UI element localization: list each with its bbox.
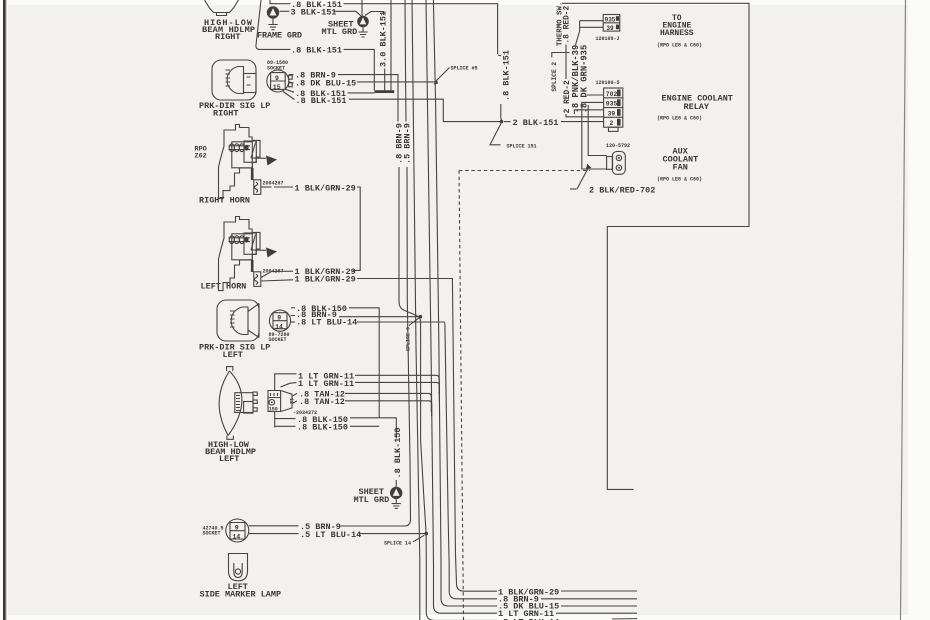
svg-text:9: 9: [275, 75, 279, 82]
svg-text:LEFT: LEFT: [223, 350, 243, 360]
wire 2 BLK/RED-702 pointer: [577, 167, 589, 190]
svg-text:LEFT: LEFT: [219, 454, 239, 464]
sheet metal ground symbol (bottom): [390, 487, 402, 499]
wire .5 BRN-9 (side marker): [249, 525, 299, 527]
trunk wire .5 BRN-9 resumed down to side marker: [339, 167, 411, 526]
svg-text:(RPO LE8 & C60): (RPO LE8 & C60): [657, 116, 702, 122]
svg-text:15: 15: [273, 84, 281, 91]
wire .8 TAN-12 (headlamp left, first): [292, 393, 297, 396]
svg-text:2 BLK-151: 2 BLK-151: [513, 118, 559, 128]
svg-text:1 BLK/GRN-29: 1 BLK/GRN-29: [295, 183, 356, 193]
svg-text:39: 39: [608, 110, 616, 117]
svg-text:.8 DK GRN-935: .8 DK GRN-935: [579, 45, 589, 114]
connector 2034372 (headlamp left, 3-cavity): [268, 391, 281, 412]
svg-text:FAN: FAN: [673, 163, 688, 173]
splice 2 bracket and cross: [552, 53, 563, 58]
svg-text:702: 702: [606, 91, 618, 98]
svg-text:LEFT HORN: LEFT HORN: [201, 282, 247, 292]
svg-text:SOCKET: SOCKET: [269, 337, 287, 343]
scan edge line right: [901, 0, 906, 620]
svg-text:120-5792: 120-5792: [606, 143, 630, 149]
svg-text:.5 BRN-9: .5 BRN-9: [403, 123, 413, 164]
svg-text:1 BLK/GRN-29: 1 BLK/GRN-29: [295, 275, 356, 285]
svg-text:RIGHT: RIGHT: [213, 109, 239, 119]
headlamp left connector body: [235, 393, 253, 413]
svg-text:120109-J: 120109-J: [596, 36, 620, 42]
wire .8 BLK-150 (prk-dir left, first): [291, 307, 295, 309]
svg-text:RELAY: RELAY: [684, 102, 710, 112]
svg-text:39: 39: [606, 25, 614, 32]
svg-text:.8 BLK-151: .8 BLK-151: [296, 96, 347, 106]
svg-text:SPLICE #5: SPLICE #5: [451, 66, 478, 72]
trunk wire (from top edge down to bottom edge): [412, 0, 420, 620]
svg-text:HARNESS: HARNESS: [660, 29, 694, 38]
svg-text:14: 14: [233, 533, 241, 540]
wire .8 TAN-12 (headlamp left, second): [292, 401, 297, 404]
wire 1 BLK/GRN-29 (right horn): [261, 186, 272, 188]
splice 5 pointer and label: [437, 68, 450, 81]
trunk wire (from top edge, splice 5, to bundle .5 DK BLU-15): [433, 0, 497, 606]
svg-text:MTL GRD: MTL GRD: [354, 495, 390, 505]
wire 2 BLK-151 (to engine coolant relay): [504, 121, 511, 123]
svg-text:SPLICE 9: SPLICE 9: [406, 327, 412, 351]
trunk wire LT BLU-14 (from prk-dir left, to bundle .8 BRN-9): [357, 322, 497, 599]
svg-text:FRAME GRD: FRAME GRD: [257, 31, 302, 41]
svg-text:RIGHT: RIGHT: [215, 32, 241, 42]
splice 14 dot: [424, 532, 428, 536]
wire 1 LT GRN-11 (headlamp left, first): [275, 374, 297, 391]
svg-text:(RPO LE8 & C60): (RPO LE8 & C60): [657, 43, 702, 49]
trunk wire: BRN-9 resumed, splice 9 path, splice 14 path, 5th bundle line: [399, 167, 497, 620]
lamp LEFT SIDE MARKER: [229, 554, 248, 581]
svg-text:.8 BLK-151: .8 BLK-151: [291, 46, 342, 56]
svg-text:2: 2: [610, 120, 614, 127]
svg-text:1 BLK/GRN-29: 1 BLK/GRN-29: [498, 587, 559, 597]
svg-text:SPLICE 14: SPLICE 14: [384, 541, 411, 547]
wire .5 LT BLU-14 (side marker to splice 14): [249, 533, 299, 535]
svg-text:935: 935: [606, 101, 618, 108]
wire .8 BLK-151 (top, right hdlmp to splice box): [270, 0, 291, 4]
svg-text:2 BLK/RED-702: 2 BLK/RED-702: [589, 185, 655, 195]
svg-text:14: 14: [275, 323, 283, 330]
svg-text:.8 BLK-151: .8 BLK-151: [501, 50, 511, 101]
svg-text:935: 935: [605, 16, 616, 23]
wire .8 BLK-151 (second, to ground bar): [256, 0, 291, 49]
svg-text:.8 DK BLU-15: .8 DK BLU-15: [295, 79, 356, 89]
wire 2 RED-2 segments: [565, 45, 567, 80]
svg-text:(RPO LE8 & C60): (RPO LE8 & C60): [657, 177, 702, 183]
sheet metal ground symbol (top): [357, 16, 369, 28]
svg-text:.8 LT BLU-14: .8 LT BLU-14: [296, 318, 357, 328]
wires relay to aux fan: [582, 114, 607, 169]
wire .8 BLK-151 (fourth, prk-dir right ground to splice 151): [283, 92, 295, 100]
svg-text:2004267: 2004267: [263, 181, 284, 187]
wire .8 BLK-151 (third, prk-dir right ground): [285, 89, 295, 92]
headlamp HIGH-LOW BEAM HDLMP RIGHT (cut off at top): [205, 0, 239, 13]
wire .8 DK BLU-15 (prk-dir right, to splice 5): [289, 82, 294, 83]
svg-text:9: 9: [235, 525, 239, 532]
splice 5 arrowhead on trunk: [434, 79, 439, 84]
wire 3 BLK-151 (frame grd to sheet mtl grd): [280, 10, 290, 12]
wire 1 BLK/GRN-29 (left horn upper): [261, 271, 293, 277]
svg-text:.8 RED-2: .8 RED-2: [563, 5, 572, 43]
svg-text:SOCKET: SOCKET: [203, 531, 221, 537]
svg-text:.5 LT BLU-14: .5 LT BLU-14: [300, 530, 361, 540]
wire .8 BRN-9 (prk-dir left, to splice 9): [291, 315, 295, 317]
headlamp HIGH-LOW BEAM HDLMP LEFT lens: [219, 371, 242, 436]
wire .8 BLK-150 (headlamp left ground, first): [274, 412, 276, 428]
wire 1 BLK/GRN-29 (left horn lower): [261, 280, 293, 281]
dashed harness boundary: [459, 170, 590, 172]
trunk wire (from top edge, to bundle 1 LT GRN-11): [426, 0, 497, 613]
lamp PRK-DIR SIG LP RIGHT: [212, 60, 256, 100]
connector 120109-J (to engine harness): [603, 15, 620, 32]
svg-text:MTL GRD: MTL GRD: [322, 27, 358, 37]
svg-text:1 LT GRN-11: 1 LT GRN-11: [298, 379, 354, 389]
frame ground symbol: [267, 6, 279, 18]
trunk wire from top: dk blu feed to terminal circle: [405, 0, 406, 122]
connector socket 89-7280 (prk-dir left): [269, 310, 290, 331]
wire from top edge into terminal bar: [390, 0, 392, 90]
svg-text:RIGHT HORN: RIGHT HORN: [199, 195, 250, 205]
svg-text:SPLICE 2: SPLICE 2: [551, 62, 558, 92]
wire .8 BLK-150 (headlamp left ground, second): [275, 425, 296, 427]
wire stub into sheet mtl grd from top edge: [361, 0, 363, 16]
svg-text:3.0 BLK-151: 3.0 BLK-151: [379, 11, 389, 67]
horn RIGHT (bracket, body, coil, lever, arrow, stem): [219, 125, 278, 199]
svg-text:.8 BLK-150: .8 BLK-150: [297, 423, 348, 433]
svg-text:Z62: Z62: [195, 153, 207, 161]
engine compartment box outline: [562, 3, 749, 489]
splice 151 pointer and label: [490, 124, 501, 145]
wire .8 LT BLU-14 (prk-dir left): [291, 321, 295, 323]
splice 9 dot: [419, 315, 423, 319]
ground terminal bar: [374, 90, 394, 93]
svg-text:3 BLK-151: 3 BLK-151: [291, 7, 337, 17]
svg-text:.8 TAN-12: .8 TAN-12: [299, 397, 345, 407]
wires top connector to risers: [576, 21, 604, 45]
svg-text:.8 BLK-150: .8 BLK-150: [393, 427, 403, 478]
trunk wire horn BLK/GRN-29 (to bundle 1 BLK/GRN-29): [452, 278, 497, 591]
lamp PRK-DIR SIG LP LEFT: [217, 300, 259, 341]
svg-text:150: 150: [269, 407, 278, 413]
svg-text:SPLICE 151: SPLICE 151: [507, 143, 537, 149]
horn LEFT: [219, 217, 278, 291]
wire 1 LT GRN-11 (headlamp left, second): [281, 383, 297, 387]
svg-text:120100-5: 120100-5: [596, 80, 620, 86]
scan edge dark bar left: [3, 0, 5, 620]
wire .8 BRN-9 (prk-dir right): [289, 74, 294, 76]
svg-text:SIDE MARKER LAMP: SIDE MARKER LAMP: [200, 590, 282, 600]
junction splice 151 dot: [500, 120, 504, 124]
wires into relay connector: [566, 114, 603, 117]
svg-text:9: 9: [277, 315, 281, 322]
